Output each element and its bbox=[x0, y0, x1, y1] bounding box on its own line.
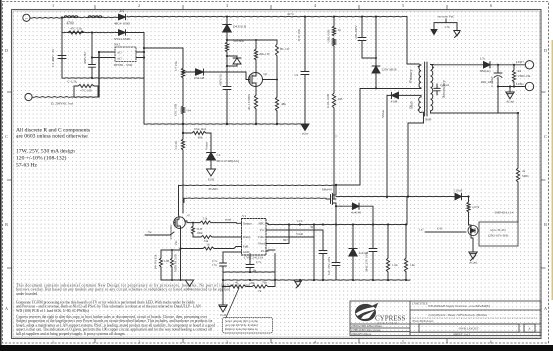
capacitor C10 bbox=[372, 225, 374, 249]
wire x314 drop bbox=[313, 237, 315, 280]
svg-text:A: A bbox=[544, 306, 547, 311]
diode D11 output rectifier bbox=[484, 62, 491, 68]
svg-text:5: 5 bbox=[402, 3, 404, 8]
svg-text:Ramp: Ramp bbox=[243, 235, 251, 239]
svg-text:AGnd: AGnd bbox=[469, 261, 477, 265]
svg-text:6: 6 bbox=[490, 340, 492, 345]
svg-text:14+ PA 15k: 14+ PA 15k bbox=[154, 254, 158, 269]
resistor R15 vertical bbox=[192, 226, 195, 234]
svg-text:400V-50: 400V-50 bbox=[219, 74, 223, 86]
svg-text:17u: 17u bbox=[212, 263, 217, 267]
resistor R7 bbox=[225, 42, 228, 52]
wire VDD y198 bbox=[184, 197, 326, 199]
svg-text:6: 6 bbox=[490, 3, 492, 8]
svg-text:1x?: 1x? bbox=[419, 227, 424, 231]
svg-text:4x: 4x bbox=[522, 169, 526, 173]
wire y272 bus bbox=[223, 271, 275, 273]
svg-text:48k: 48k bbox=[281, 102, 286, 106]
svg-text:HC-1W: HC-1W bbox=[280, 47, 290, 51]
svg-text:C: C bbox=[336, 134, 338, 138]
capacitor C4 bbox=[301, 71, 309, 73]
svg-text:C1 400V .33: C1 400V .33 bbox=[51, 49, 55, 67]
svg-text:SMP4(14.1)-4: SMP4(14.1)-4 bbox=[495, 211, 514, 215]
svg-text:yGty: yGty bbox=[302, 132, 309, 136]
svg-text:x)AGnd: x)AGnd bbox=[440, 84, 450, 87]
svg-text:D: D bbox=[5, 48, 8, 53]
svg-text:OBL-10B: OBL-10B bbox=[327, 30, 331, 43]
svg-text:51k: 51k bbox=[203, 217, 208, 221]
capacitor C7 interwinding bbox=[436, 84, 438, 88]
wire GnD pin left bbox=[223, 252, 242, 258]
ground AGND6 bbox=[456, 23, 458, 31]
resistor R10b bbox=[276, 44, 279, 56]
wire AC2 bbox=[32, 96, 72, 99]
resistor R3 bbox=[181, 68, 184, 78]
wire secondary return bbox=[497, 87, 499, 114]
svg-text:Vbias: Vbias bbox=[381, 109, 385, 117]
svg-text:V1: V1 bbox=[242, 214, 246, 218]
svg-text:cycleyWpwch - Denay cWfWdwwwcp: cycleyWpwch - Denay cWfWdwwwcp cjBcdlwe bbox=[428, 313, 488, 317]
resistor R22 bbox=[516, 168, 519, 182]
svg-text:ESD: ESD bbox=[208, 178, 215, 182]
svg-text:30k: 30k bbox=[198, 136, 203, 140]
wire Vbsd y243 bbox=[268, 225, 289, 244]
optocoupler U2 bbox=[468, 226, 478, 236]
capacitor C12 bbox=[220, 262, 227, 264]
svg-text:C: C bbox=[5, 134, 8, 139]
ground AGND3 bbox=[219, 305, 227, 312]
wire source to diode bbox=[336, 205, 341, 207]
svg-text:AGnd: AGnd bbox=[506, 100, 514, 104]
Cypress logo bbox=[355, 303, 405, 325]
svg-text:PGND: PGND bbox=[209, 187, 219, 191]
svg-text:76k: 76k bbox=[262, 281, 267, 285]
wire output - rail bbox=[498, 86, 525, 88]
resistor R4 bbox=[181, 106, 184, 114]
wire Q2 gate bbox=[145, 232, 174, 235]
svg-text:Vbsd: Vbsd bbox=[258, 242, 265, 246]
wire x223 drop bbox=[222, 272, 224, 305]
wire bias top bbox=[399, 95, 422, 97]
wire DC bus x144 bbox=[143, 33, 145, 125]
wire secondary bottom bbox=[431, 112, 499, 114]
svg-text:C?4: C?4 bbox=[445, 25, 450, 29]
resistor R5 bbox=[181, 139, 184, 150]
svg-text:1: 1 bbox=[52, 340, 54, 345]
svg-text:borrows overlay. But based on: borrows overlay. But based on any models… bbox=[16, 288, 230, 292]
wire IC gnd down bbox=[249, 254, 251, 265]
svg-text:B: B bbox=[5, 222, 8, 227]
svg-text:full pf suppliers and at bring: full pf suppliers and at bring properly/… bbox=[16, 332, 126, 336]
svg-text:C8L 10B: C8L 10B bbox=[174, 103, 178, 116]
capacitor C2 bulk bbox=[89, 64, 96, 66]
svg-text:4148: 4148 bbox=[391, 100, 398, 104]
svg-text:48C4-100D: 48C4-100D bbox=[114, 22, 131, 26]
wire fb y232 bbox=[425, 231, 466, 233]
resistor R8 bbox=[254, 49, 257, 60]
svg-text:VDD-13k: VDD-13k bbox=[518, 74, 531, 78]
diode D9 bbox=[352, 225, 354, 249]
wire Vcc y230 bbox=[268, 230, 323, 250]
svg-text:2: 2 bbox=[138, 340, 140, 345]
transistor Q1 startup bbox=[249, 73, 263, 87]
svg-text:SDD: SDD bbox=[522, 174, 529, 178]
svg-text:C10uF: C10uF bbox=[454, 189, 463, 193]
wire y225 bus bbox=[268, 223, 407, 225]
capacitor C6 x362 bbox=[361, 17, 363, 37]
wire y48 feed bbox=[144, 47, 183, 49]
diode Z2 zener stub bbox=[227, 56, 237, 58]
svg-text:Remove none that make no: Remove none that make no bbox=[225, 327, 258, 331]
svg-text:3: 3 bbox=[226, 3, 228, 8]
svg-text:1k: 1k bbox=[206, 243, 210, 247]
svg-text:Bias: Bias bbox=[409, 101, 414, 109]
resistor R21 bbox=[467, 202, 470, 212]
node J junction bbox=[61, 16, 63, 18]
svg-text:- PWB LAYOUT -: - PWB LAYOUT - bbox=[458, 327, 481, 331]
svg-text:DRAWN ddp.es: DRAWN ddp.es bbox=[352, 332, 372, 336]
design notes text bbox=[16, 128, 90, 169]
svg-text:47: 47 bbox=[187, 214, 191, 218]
svg-text:DF06S - SSD: DF06S - SSD bbox=[114, 63, 133, 67]
capacitor C3 bbox=[223, 86, 231, 88]
svg-text:450V/82: 450V/82 bbox=[83, 52, 87, 64]
capacitor C14 sense bbox=[335, 225, 337, 263]
resistor R23 load bbox=[513, 65, 515, 70]
resistor R2 parallel loop bbox=[72, 86, 78, 97]
resistor R11 bbox=[332, 26, 335, 36]
resistor R12 bbox=[332, 38, 335, 46]
svg-text:14H: 14H bbox=[164, 259, 170, 263]
wire y124 bus bbox=[144, 123, 303, 125]
svg-text:4C%: 4C% bbox=[287, 12, 294, 16]
svg-text:Vds: Vds bbox=[174, 240, 178, 246]
svg-text:1.6k: 1.6k bbox=[392, 263, 398, 267]
transformer T1 bias winding bbox=[419, 97, 421, 113]
capacitor C1 X-cap bbox=[58, 55, 66, 57]
wire Vstart y133 bbox=[183, 132, 192, 134]
svg-text:120 +/-10% (108-132): 120 +/-10% (108-132) bbox=[16, 155, 67, 162]
wire bus x227 bbox=[226, 17, 228, 24]
wire output + bbox=[490, 64, 525, 66]
svg-text:Vcc: Vcc bbox=[260, 228, 266, 232]
disclaimer paragraphs bbox=[16, 284, 250, 336]
wire opto emitter gnd bbox=[472, 238, 474, 252]
svg-text:206-400V: 206-400V bbox=[354, 25, 358, 39]
capacitor C9 bbox=[319, 250, 327, 252]
scan edge artifacts (decorative) bbox=[0, 345, 553, 351]
svg-text:40-1.5 9806: 40-1.5 9806 bbox=[247, 94, 251, 110]
transistor Q2 2N7000 bbox=[174, 217, 186, 229]
svg-text:wpto TL431: wpto TL431 bbox=[490, 228, 506, 232]
wire bus x183 bbox=[182, 48, 184, 68]
transformer T1 core bbox=[424, 62, 426, 116]
svg-text:Vstart: Vstart bbox=[205, 142, 209, 150]
wire AC2 riser x99 bbox=[98, 52, 100, 97]
wire x305 Y-cap to gnd bbox=[304, 17, 306, 71]
svg-text:v.l.C: v.l.C bbox=[297, 219, 303, 223]
svg-text:C7o: C7o bbox=[256, 260, 262, 264]
svg-text:word: word bbox=[225, 218, 232, 222]
svg-text:B: B bbox=[544, 222, 547, 227]
svg-text:PSoC/DOC#owrr: PSoC/DOC#owrr bbox=[413, 319, 434, 323]
svg-text:47C-15k: 47C-15k bbox=[70, 27, 82, 31]
svg-text:7k: 7k bbox=[258, 289, 262, 293]
connector J3 LED+ bbox=[525, 61, 533, 69]
diode D6 clamp bbox=[375, 17, 377, 66]
svg-text:C? 15k: C? 15k bbox=[174, 61, 178, 71]
svg-text:HFC: HFC bbox=[258, 222, 264, 226]
svg-text:(2N2-10%-D4): (2N2-10%-D4) bbox=[488, 234, 507, 238]
svg-text:Q1: Q1 bbox=[264, 72, 268, 76]
diode D10 bbox=[455, 193, 462, 199]
svg-text:20k: 20k bbox=[250, 281, 255, 285]
svg-text:C4: C4 bbox=[217, 153, 221, 157]
wire top rail bbox=[30, 17, 62, 20]
svg-text:C43: C43 bbox=[437, 227, 443, 231]
resistor R18 bbox=[405, 225, 407, 259]
transformer T1 primary bbox=[419, 64, 421, 65]
svg-text:C4: C4 bbox=[294, 73, 298, 77]
wire x275 bbox=[274, 254, 276, 287]
svg-text:P1: P1 bbox=[261, 249, 265, 253]
transistor M1 main switch bbox=[335, 185, 337, 192]
svg-text:MCC4+400(AC): MCC4+400(AC) bbox=[217, 159, 240, 163]
wire y185 bus bbox=[179, 184, 337, 186]
svg-text:4700: 4700 bbox=[66, 22, 73, 26]
ground VGND arrow bbox=[301, 124, 309, 131]
svg-text:100k: 100k bbox=[197, 231, 204, 235]
resistor R6 30k bbox=[192, 131, 206, 134]
svg-text:Primary: Primary bbox=[408, 68, 413, 82]
resistor R16b bbox=[201, 236, 212, 239]
svg-text:CY8C24123A: CY8C24123A bbox=[244, 256, 264, 260]
svg-text:57-63 Hz: 57-63 Hz bbox=[16, 163, 37, 169]
connector J4 LED- bbox=[525, 82, 533, 90]
resistor R13 bbox=[332, 93, 335, 108]
wire D2 to bus bbox=[126, 32, 145, 34]
diode Z1 zener bbox=[207, 153, 216, 161]
svg-text:Vddo: Vddo bbox=[258, 235, 265, 239]
inductor L1 bbox=[64, 16, 78, 18]
ground AGND5 bbox=[509, 87, 511, 93]
wire bridge pins bbox=[99, 51, 115, 53]
resistor R10 bbox=[275, 97, 278, 111]
svg-text:AC?: AC? bbox=[117, 51, 123, 55]
svg-text:AC?: AC? bbox=[117, 57, 123, 61]
wire source sense down bbox=[335, 206, 337, 224]
svg-text:Output: Output bbox=[243, 222, 252, 226]
svg-text:PAD_OPT: PAD_OPT bbox=[481, 81, 493, 84]
ground PGND2 bbox=[185, 280, 193, 286]
ground AGND4 bbox=[469, 252, 477, 259]
svg-text:WB-DO8eGB Supply Overview - no: WB-DO8eGB Supply Overview - nov.eMfw8e8(… bbox=[428, 304, 490, 308]
wire note pointer bbox=[226, 288, 239, 318]
resistor R17 bbox=[387, 225, 389, 259]
wire left subnet bbox=[161, 249, 181, 251]
svg-text:FdB: FdB bbox=[243, 245, 248, 249]
title block bbox=[350, 301, 541, 336]
diode D2 bbox=[119, 30, 126, 36]
svg-text:Secondary: Secondary bbox=[441, 79, 446, 98]
svg-text:D: D bbox=[544, 48, 547, 53]
wire Q2 source down bbox=[180, 228, 182, 248]
svg-text:R4: R4 bbox=[518, 69, 522, 73]
svg-text:Vbk_Ref: Vbk_Ref bbox=[194, 127, 207, 131]
resistor R1 bbox=[68, 31, 84, 34]
wire secondary top bbox=[431, 64, 484, 66]
svg-text:see note VuC: see note VuC bbox=[438, 15, 455, 19]
svg-text:LED+: LED+ bbox=[516, 60, 524, 64]
diode D7 bias 4148 bbox=[392, 92, 399, 98]
svg-text:MBR PA 3.0B: MBR PA 3.0B bbox=[174, 254, 178, 272]
wire FdB y248.5 bbox=[181, 248, 204, 250]
wire bottom y78 bbox=[62, 77, 144, 79]
diode D1 bbox=[119, 14, 126, 20]
svg-text:C: C bbox=[544, 134, 547, 139]
svg-text:A.B: A.B bbox=[338, 97, 343, 101]
wire IC pin stubs bbox=[237, 222, 242, 224]
svg-text:NE1: NE1 bbox=[114, 43, 121, 47]
svg-text:1: 1 bbox=[52, 3, 54, 8]
resistor row R19 R20 bbox=[223, 286, 230, 288]
svg-text:M4x4 b: M4x4 b bbox=[322, 188, 333, 192]
svg-text:under boarded: under boarded bbox=[16, 292, 37, 296]
wire y40 bbox=[227, 40, 256, 49]
IC U1 CY8C controller bbox=[242, 219, 267, 256]
svg-text:867: 867 bbox=[283, 238, 288, 242]
svg-text:XY04-SMD: XY04-SMD bbox=[114, 37, 131, 41]
svg-text:+7C-100: +7C-100 bbox=[80, 88, 92, 92]
wire x407 right bus bbox=[406, 197, 408, 225]
svg-text:~: ~ bbox=[25, 17, 28, 22]
wire Ramp y237 bbox=[193, 236, 201, 238]
connector J1 AC line input bbox=[23, 14, 30, 21]
note box bbox=[223, 318, 273, 334]
svg-text:20k-1W: 20k-1W bbox=[259, 52, 271, 56]
wire sense x518 bbox=[517, 182, 519, 222]
svg-text:Vddd: Vddd bbox=[296, 232, 303, 236]
svg-text:D1: D1 bbox=[120, 9, 125, 13]
svg-text:M4Z 25V 10%: M4Z 25V 10% bbox=[365, 252, 369, 272]
diode D4 ES1D bbox=[223, 25, 232, 33]
svg-text:C4 3K: C4 3K bbox=[174, 140, 178, 149]
wire right branch x277 bbox=[263, 80, 278, 98]
svg-text:17W, 25V, 530 mA design: 17W, 25V, 530 mA design bbox=[16, 149, 75, 155]
svg-text:o.07k: o.07k bbox=[472, 205, 480, 209]
svg-text:3: 3 bbox=[226, 340, 228, 345]
ground PGND arrow bbox=[207, 169, 216, 176]
ground PGND4 bbox=[431, 30, 437, 35]
svg-text:are 0603 unless noted otherwis: are 0603 unless noted otherwise bbox=[16, 134, 88, 140]
svg-text:D4 ES1D: D4 ES1D bbox=[233, 25, 247, 29]
wire gate y72 bbox=[183, 71, 195, 73]
inductor L2 bbox=[88, 16, 102, 18]
diode D5 1N4148 bbox=[196, 69, 204, 75]
wire loop y32 bbox=[62, 31, 118, 33]
svg-text:CoD: CoD bbox=[220, 313, 227, 317]
phase dots bbox=[418, 66, 420, 68]
svg-text:L7o: L7o bbox=[480, 57, 486, 61]
resistor R16 bbox=[160, 258, 163, 267]
wire Vddo y237 bbox=[268, 225, 314, 238]
svg-text:2N7000BU: 2N7000BU bbox=[169, 224, 173, 239]
svg-text:520V MUR: 520V MUR bbox=[382, 68, 398, 72]
capacitor C11 bbox=[246, 264, 254, 266]
title block text bbox=[352, 302, 532, 337]
svg-text:14k: 14k bbox=[410, 263, 415, 267]
wire vertical x62 bbox=[61, 18, 63, 78]
capacitor C13 output bbox=[497, 65, 499, 73]
wire to bridge bbox=[98, 96, 99, 98]
svg-text:2: 2 bbox=[138, 3, 140, 8]
wire y280 gnd bus bbox=[223, 279, 410, 281]
wire Q2 drain to IC bbox=[185, 221, 201, 223]
svg-text:C-1.5k: C-1.5k bbox=[67, 80, 77, 84]
svg-text:GnD: GnD bbox=[243, 250, 250, 254]
svg-text:H16 19K: H16 19K bbox=[297, 28, 301, 41]
wire bias bottom bbox=[408, 112, 424, 196]
capacitor C8 bbox=[171, 258, 174, 267]
svg-text:C.OL 4.0B: C.OL 4.0B bbox=[326, 94, 330, 108]
svg-text:SHEET 1 of 1: SHEET 1 of 1 bbox=[453, 332, 471, 336]
ground PGND3 bbox=[294, 280, 302, 287]
svg-text:94: 94 bbox=[188, 109, 192, 113]
IC U3 TL431 box bbox=[479, 222, 518, 246]
diode D8 bbox=[353, 203, 360, 209]
wire source down bbox=[255, 87, 257, 96]
svg-text:CY8CTITLE: CY8CTITLE bbox=[412, 302, 428, 306]
resistor R9 bbox=[254, 95, 257, 109]
svg-text:3009: 3009 bbox=[425, 118, 432, 122]
svg-text:4o4148: 4o4148 bbox=[351, 211, 361, 215]
bridge rectifier NE1 DF06S bbox=[115, 47, 136, 62]
wire x334 divider chain bbox=[333, 17, 335, 26]
resistor R14 bbox=[200, 221, 211, 224]
wire rail drop x407 bbox=[407, 17, 419, 64]
connector J2 AC neutral input bbox=[25, 93, 32, 100]
svg-text:SB2(4o): SB2(4o) bbox=[480, 69, 491, 73]
junction dots on rail bbox=[226, 16, 228, 18]
transformer T1 secondary bbox=[431, 65, 433, 114]
svg-text:LEDo: LEDo bbox=[516, 82, 524, 86]
svg-text:1N4148: 1N4148 bbox=[194, 76, 205, 80]
svg-text:5: 5 bbox=[402, 340, 404, 345]
svg-text:A: A bbox=[5, 306, 8, 311]
wire drain drop bbox=[336, 89, 360, 186]
